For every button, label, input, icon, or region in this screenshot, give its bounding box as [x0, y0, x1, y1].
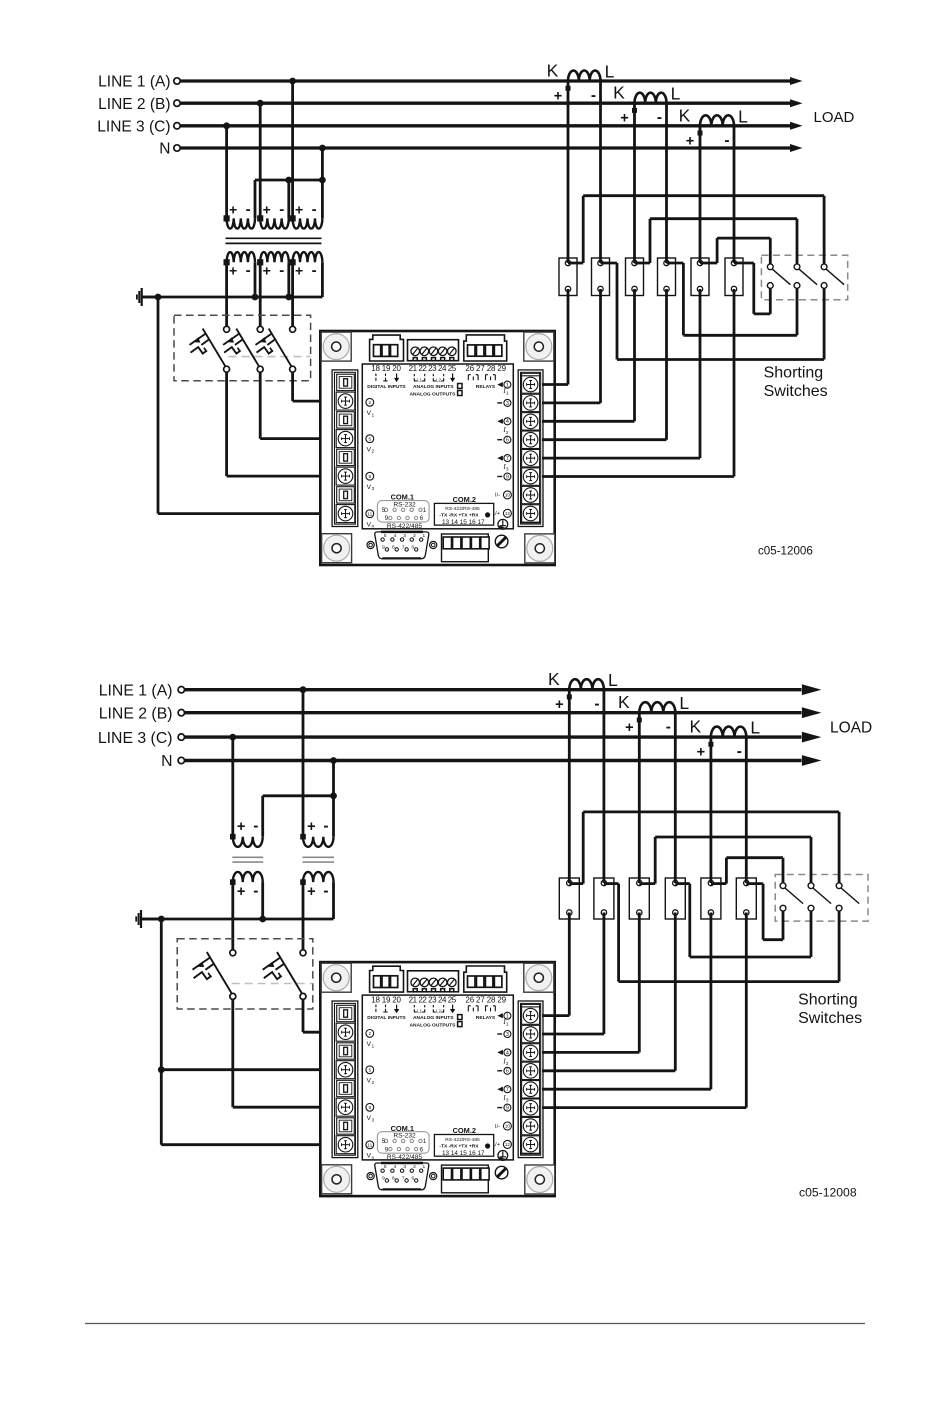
svg-text:-: - [312, 262, 317, 279]
svg-text:LINE 1 (A): LINE 1 (A) [99, 682, 173, 699]
svg-text:LINE 1 (A): LINE 1 (A) [98, 74, 170, 91]
svg-text:2: 2 [372, 1080, 375, 1086]
svg-text:1: 1 [372, 412, 375, 418]
svg-text:Shorting: Shorting [798, 992, 858, 1009]
terminal label 11 (Vn) [366, 1141, 374, 1149]
COM.1 DB9 connector [375, 532, 429, 559]
svg-text:N: N [161, 753, 172, 770]
meter outer case [320, 331, 554, 565]
wire ground to Vn [157, 297, 160, 514]
fuse F1 [230, 950, 236, 956]
svg-text:26 27 28 29: 26 27 28 29 [465, 364, 506, 373]
COM.2 terminal block [442, 1165, 489, 1193]
CT test block 3 [629, 878, 649, 919]
svg-text:21 22 23 24 25: 21 22 23 24 25 [409, 364, 457, 373]
wire block 2 to meter terminal [603, 913, 606, 1035]
svg-text:LINE 3 (C): LINE 3 (C) [97, 118, 170, 135]
terminal label 4 [497, 419, 503, 424]
wire block 4 to meter terminal [665, 289, 668, 440]
junction N drop [330, 757, 337, 764]
svg-text:9: 9 [382, 545, 385, 551]
ground symbol [141, 288, 143, 306]
CT test block 2 [594, 878, 614, 919]
inner panel face [362, 995, 513, 1160]
ground bus [141, 918, 334, 921]
CT3 on line 3 [700, 115, 734, 125]
terminal label 3 [497, 1033, 502, 1035]
svg-text:+: + [307, 819, 315, 835]
svg-text:1: 1 [372, 1043, 375, 1049]
svg-text:+: + [620, 111, 628, 127]
svg-text:4: 4 [394, 533, 397, 539]
svg-text:11: 11 [367, 511, 372, 517]
shorting switch S2 [794, 264, 800, 270]
svg-text:9: 9 [506, 474, 509, 480]
PT1 secondary lead to fuse [231, 882, 234, 950]
shorting switch box (dashed) [775, 875, 868, 922]
terminal label 6 [497, 1070, 502, 1072]
svg-text:L: L [750, 718, 760, 738]
svg-text:-TX -RX +TX +RX: -TX -RX +TX +RX [439, 1144, 479, 1150]
wire block 5 to meter terminal [699, 289, 702, 458]
PT1 primary winding [227, 218, 255, 228]
svg-text:+: + [263, 262, 271, 278]
wire block4 to switch S2 bottom [667, 262, 684, 265]
mounting pad top-right [524, 332, 554, 361]
CT test block 6 [736, 878, 756, 919]
svg-text:ANALOG OUTPUTS: ANALOG OUTPUTS [410, 391, 457, 397]
shorting switch S2 [808, 883, 814, 889]
mounting pad bottom-right [525, 534, 555, 563]
COM.2 terminal block [442, 534, 489, 562]
terminal label 8 (V3) [366, 472, 374, 480]
connector: relays (26-29) [464, 335, 507, 361]
svg-text:Switches: Switches [764, 383, 828, 400]
connector: analog I/O (21-25) [408, 340, 459, 361]
svg-text:L2: L2 [436, 377, 442, 382]
svg-text:RELAYS: RELAYS [476, 384, 496, 390]
wire block 3 to meter terminal [633, 289, 636, 421]
svg-text:RS-232: RS-232 [393, 1132, 416, 1139]
svg-text:-: - [591, 87, 596, 104]
svg-text:-: - [657, 109, 662, 126]
svg-text:6: 6 [411, 545, 414, 551]
svg-text:+: + [237, 819, 245, 835]
svg-text:c05-12008: c05-12008 [799, 1186, 857, 1200]
shorting switch S1 [780, 883, 786, 889]
svg-text:18 19 20: 18 19 20 [371, 995, 401, 1004]
svg-text:2: 2 [413, 1164, 416, 1170]
svg-text:2: 2 [506, 430, 509, 436]
svg-text:3: 3 [372, 486, 375, 492]
svg-text:6: 6 [411, 1176, 414, 1182]
wire block5 to switch S1 [700, 262, 717, 265]
terminal label 2 (V1) [366, 1030, 374, 1038]
svg-text:RS-422/485: RS-422/485 [387, 523, 423, 530]
mounting pad bottom-left [322, 1165, 352, 1194]
svg-text:K: K [547, 61, 559, 81]
svg-text:Shorting: Shorting [764, 365, 824, 382]
svg-text:L1: L1 [417, 1008, 423, 1013]
wire block 6 to meter terminal [733, 289, 736, 477]
svg-text:-: - [253, 882, 258, 899]
CT test block 4 [658, 258, 676, 296]
PT2 secondary winding [260, 252, 289, 262]
svg-text:13 14 15 16 17: 13 14 15 16 17 [442, 1150, 485, 1157]
svg-text:1: 1 [422, 533, 425, 539]
svg-text:8: 8 [392, 1176, 395, 1182]
svg-text:LINE 2 (B): LINE 2 (B) [99, 705, 173, 722]
svg-text:2: 2 [368, 400, 371, 406]
wire fuse F3 to V1 [291, 372, 294, 401]
svg-text:1: 1 [506, 391, 509, 397]
svg-text:DIGITAL INPUTS: DIGITAL INPUTS [367, 1015, 406, 1021]
svg-text:+: + [625, 720, 633, 736]
svg-text:5: 5 [368, 436, 371, 442]
PT2 primary winding [303, 837, 333, 847]
right terminal strip (I terminals) [518, 370, 543, 527]
CT3 L lead [733, 126, 736, 263]
CT1 K lead [568, 690, 571, 883]
svg-text:RS-422/RS-485: RS-422/RS-485 [445, 506, 480, 512]
wire block6 to switch S1 bottom [746, 882, 763, 885]
svg-text:COM.2: COM.2 [453, 495, 476, 504]
junction N to PT commons [319, 145, 326, 152]
svg-text:RS-232: RS-232 [393, 501, 416, 508]
CT3 K lead [699, 126, 702, 263]
svg-text:9: 9 [382, 1176, 385, 1182]
connector: analog I/O (21-25) [408, 971, 459, 992]
shorting switch box (dashed) [761, 255, 847, 300]
svg-text:+: + [229, 202, 237, 218]
svg-text:2: 2 [372, 449, 375, 455]
svg-text:L: L [738, 106, 748, 126]
terminal label 1 [497, 1013, 503, 1018]
svg-text:L: L [608, 670, 618, 690]
wire ground to Vn [161, 1143, 337, 1146]
terminal label 8 (V3) [366, 1103, 374, 1111]
wire fuse F2 to V1 [302, 999, 305, 1032]
PT3 secondary winding [293, 252, 323, 262]
right terminal strip (I terminals) [518, 1001, 543, 1158]
svg-text:11: 11 [367, 1143, 372, 1149]
wire block4 to switch S2 bottom [675, 882, 690, 885]
fuse box (dashed) [177, 939, 313, 1009]
svg-text:1: 1 [506, 1022, 509, 1028]
CT2 L lead [674, 713, 677, 883]
ground terminal symbol [498, 1151, 508, 1161]
wire block 4 to meter terminal [674, 913, 677, 1071]
PT1 secondary winding [227, 252, 255, 262]
connector: digital inputs (18-20) [370, 966, 404, 992]
CT1 K lead [567, 81, 570, 263]
wire block 1 to meter terminal [567, 289, 570, 385]
svg-text:LOAD: LOAD [830, 719, 872, 736]
CT test block 5 [691, 258, 709, 296]
junction LINE2 to PT2 [257, 100, 264, 107]
connector: digital inputs (18-20) [370, 335, 404, 361]
svg-text:-: - [279, 201, 284, 218]
svg-text:7: 7 [506, 1087, 509, 1093]
wire block5 to switch S1 [711, 882, 727, 885]
fuse box (dashed) [174, 315, 311, 381]
mounting pad bottom-left [322, 534, 352, 563]
wire fuse F1 to V3 [225, 372, 228, 476]
terminal label 1 [497, 382, 503, 387]
PT primary common link [263, 794, 334, 797]
svg-text:LOAD: LOAD [814, 109, 855, 126]
svg-text:DIGITAL INPUTS: DIGITAL INPUTS [367, 384, 406, 390]
wire block2 to switch S3 bottom [601, 262, 618, 265]
svg-text:9: 9 [506, 1106, 509, 1112]
PT1 secondary winding [233, 872, 263, 882]
shorting switch S3 [836, 883, 842, 889]
svg-text:-: - [724, 132, 729, 149]
svg-text:K: K [613, 83, 625, 103]
CT3 on line 3 [711, 727, 746, 738]
svg-text:7: 7 [402, 1176, 405, 1182]
chassis screw [495, 1166, 508, 1179]
svg-text:RELAYS: RELAYS [476, 1015, 496, 1021]
svg-text:LINE 2 (B): LINE 2 (B) [98, 96, 170, 113]
svg-text:L: L [671, 84, 681, 104]
CT2 on line 2 [639, 702, 675, 713]
wire block1 to switch S3 [568, 262, 583, 265]
meter outer case [320, 962, 554, 1196]
ground terminal symbol [498, 519, 508, 529]
svg-text:6: 6 [506, 438, 509, 444]
wire block 1 to meter terminal [568, 913, 571, 1016]
svg-text:-: - [312, 201, 317, 218]
PT primary common bus [255, 179, 322, 182]
svg-text:K: K [679, 105, 691, 125]
svg-text:K: K [548, 669, 560, 689]
CT test block 4 [665, 878, 685, 919]
fuse F2 [257, 326, 263, 332]
mounting pad top-left [321, 963, 351, 992]
svg-text:LINE 3 (C): LINE 3 (C) [98, 730, 173, 747]
PT secondary commons to ground bus [261, 882, 264, 919]
svg-text:+: + [295, 202, 303, 218]
junction LINE1 to PT3 [289, 78, 296, 85]
ground symbol [140, 910, 142, 928]
svg-text:8: 8 [392, 545, 395, 551]
left terminal strip (V1 V2 V3 Vn) [332, 1001, 358, 1158]
svg-text:1: 1 [422, 1164, 425, 1170]
svg-text:2: 2 [413, 533, 416, 539]
PT secondary commons to ground bus [254, 262, 257, 297]
left terminal strip (V1 V2 V3 Vn) [332, 370, 358, 527]
svg-text:+: + [307, 884, 315, 900]
svg-text:I/-: I/- [495, 493, 500, 499]
PT2 secondary lead to fuse [259, 262, 262, 326]
svg-text:L2: L2 [436, 1008, 442, 1013]
CT2 K lead [633, 103, 636, 263]
terminal label 7 [497, 456, 503, 461]
svg-text:8: 8 [368, 474, 371, 480]
terminal label 4 [497, 1050, 503, 1055]
svg-text:I/-: I/- [495, 1124, 500, 1130]
inner panel face [362, 364, 513, 529]
COM.1 DB9 connector [375, 1163, 429, 1190]
svg-text:4: 4 [506, 419, 509, 425]
svg-text:3: 3 [506, 1098, 509, 1104]
svg-text:1: 1 [506, 1014, 509, 1020]
svg-text:-: - [246, 262, 251, 279]
wire block 6 to meter terminal [745, 913, 748, 1108]
svg-text:L1: L1 [417, 377, 423, 382]
svg-text:+: + [263, 202, 271, 218]
svg-text:L: L [605, 62, 615, 82]
CT test block 6 [725, 258, 743, 296]
CT test block 3 [626, 258, 644, 296]
svg-text:21 22 23 24 25: 21 22 23 24 25 [409, 995, 457, 1004]
svg-text:ANALOG INPUTS: ANALOG INPUTS [413, 1015, 454, 1021]
svg-text:3: 3 [403, 1164, 406, 1170]
input symbols [376, 1005, 388, 1012]
PT1 core [232, 856, 263, 858]
svg-text:N: N [159, 141, 170, 158]
terminal label 11 (Vn) [366, 510, 374, 518]
footer rule [85, 1323, 865, 1325]
svg-text:3: 3 [403, 533, 406, 539]
svg-text:-: - [666, 719, 671, 736]
svg-text:+: + [229, 262, 237, 278]
wire block 3 to meter terminal [638, 913, 641, 1053]
svg-text:-: - [594, 696, 599, 713]
svg-text:K: K [618, 692, 630, 712]
svg-text:RS-422/RS-485: RS-422/RS-485 [445, 1137, 480, 1143]
fuse F2 [300, 950, 306, 956]
PT2 core [303, 856, 335, 858]
svg-text:4: 4 [394, 1164, 397, 1170]
terminal label 5 (V2) [366, 1066, 374, 1074]
svg-text:-: - [246, 201, 251, 218]
CT test block 1 [559, 258, 577, 296]
CT1 L lead [599, 81, 602, 263]
svg-text:L: L [679, 693, 689, 713]
CT2 on line 2 [635, 93, 667, 104]
svg-text:18 19 20: 18 19 20 [371, 364, 401, 373]
CT test block 1 [559, 878, 579, 919]
mounting pad top-left [321, 332, 351, 361]
PT core [226, 237, 322, 239]
CT3 L lead [745, 737, 748, 883]
input symbols [376, 374, 388, 381]
wire block3 to switch S2 [639, 882, 655, 885]
junction LINE1 to PT2 [300, 686, 307, 693]
chassis screw [495, 535, 508, 548]
PT1 primary winding [233, 837, 263, 847]
terminal label 5 (V2) [366, 435, 374, 443]
svg-text:2: 2 [368, 1031, 371, 1037]
svg-text:12: 12 [505, 511, 511, 516]
svg-text:n: n [372, 1156, 375, 1161]
svg-text:10: 10 [505, 1124, 511, 1129]
svg-text:3: 3 [506, 401, 509, 407]
PT3 secondary lead to fuse [291, 262, 294, 326]
CT test block 5 [701, 878, 721, 919]
wire block3 to switch S2 [635, 262, 651, 265]
terminal label 9 [497, 1107, 502, 1109]
wire block2 to switch S3 bottom [604, 882, 619, 885]
svg-text:3: 3 [506, 1032, 509, 1038]
svg-text:8: 8 [368, 1105, 371, 1111]
svg-text:RS-422/485: RS-422/485 [387, 1154, 423, 1161]
terminal label 9 [497, 476, 502, 478]
PT2 secondary winding [303, 872, 333, 882]
svg-text:-: - [323, 882, 328, 899]
svg-text:10: 10 [505, 493, 511, 498]
shorting switch S3 [821, 264, 827, 270]
junction LINE3 to PT1 [229, 734, 236, 741]
shorting switch S1 [767, 264, 773, 270]
CT3 K lead [710, 737, 713, 883]
terminal label 7 [497, 1087, 503, 1092]
svg-text:6: 6 [506, 1069, 509, 1075]
wire fuse F2 to V2 [259, 372, 262, 438]
junction LINE3 to PT1 [223, 122, 230, 129]
power meter (rear view) [320, 331, 555, 565]
CT test block 2 [592, 258, 610, 296]
PT2 secondary lead to fuse [302, 882, 305, 950]
svg-text:5: 5 [384, 1164, 387, 1170]
wire block 2 to meter terminal [599, 289, 602, 403]
svg-text:+: + [554, 89, 562, 105]
svg-text:5: 5 [384, 533, 387, 539]
svg-text:-TX -RX +TX +RX: -TX -RX +TX +RX [439, 513, 479, 519]
svg-text:+: + [237, 884, 245, 900]
svg-text:ANALOG INPUTS: ANALOG INPUTS [413, 384, 454, 390]
PT1 secondary lead to fuse [225, 262, 228, 326]
svg-text:K: K [690, 717, 702, 737]
wire block 5 to meter terminal [710, 913, 713, 1090]
svg-text:13 14 15 16 17: 13 14 15 16 17 [442, 519, 485, 526]
wire block6 to switch S1 bottom [734, 262, 754, 265]
PT3 primary winding [293, 218, 323, 228]
CT1 on line 1 [569, 679, 604, 690]
CT2 K lead [638, 713, 641, 883]
svg-text:5: 5 [368, 1068, 371, 1074]
svg-text:n: n [372, 525, 375, 530]
terminal label 6 [497, 439, 502, 441]
svg-text:2: 2 [506, 1061, 509, 1067]
svg-text:c05-12006: c05-12006 [758, 545, 813, 558]
CT2 L lead [665, 103, 668, 263]
svg-text:3: 3 [506, 467, 509, 473]
svg-text:-: - [253, 818, 258, 835]
mounting pad top-right [524, 963, 554, 992]
svg-text:COM.2: COM.2 [453, 1126, 476, 1135]
connector: relays (26-29) [464, 966, 507, 992]
svg-text:-: - [737, 743, 742, 760]
CT1 on line 1 [568, 71, 600, 82]
wire fuse F1 to V3 [231, 999, 234, 1107]
svg-text:-: - [279, 262, 284, 279]
svg-text:7: 7 [506, 456, 509, 462]
svg-text:+: + [686, 133, 694, 149]
svg-text:+: + [295, 262, 303, 278]
terminal label 3 [497, 402, 502, 404]
power meter (rear view) [320, 962, 555, 1196]
svg-text:Switches: Switches [798, 1010, 862, 1027]
svg-text:+: + [697, 745, 705, 761]
ground bus [142, 296, 323, 299]
svg-text:4: 4 [506, 1050, 509, 1056]
svg-text:+: + [555, 697, 563, 713]
mounting pad bottom-right [525, 1165, 555, 1194]
wire block1 to switch S3 [569, 882, 583, 885]
